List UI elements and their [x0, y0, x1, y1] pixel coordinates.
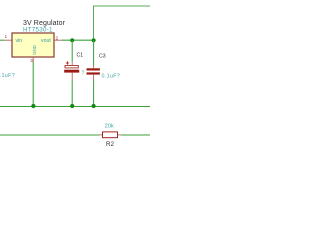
R2 pin right: [118, 134, 122, 136]
wire C3 top: [93, 40, 95, 65]
wire R2 rail left: [0, 134, 99, 136]
svg-text:C3: C3: [99, 53, 106, 59]
wire R2 rail right: [121, 134, 150, 136]
C1 plus mark: [66, 61, 69, 64]
C1 top plate (hollow): [65, 65, 78, 68]
svg-text:0.1uF?: 0.1uF?: [102, 73, 121, 79]
svg-text:20k: 20k: [105, 124, 114, 130]
junction C3 / rail: [92, 104, 96, 108]
wire C1 bottom: [71, 81, 73, 107]
C1 bottom plate (filled): [64, 70, 79, 73]
R2 pin left: [99, 134, 103, 136]
wire C3 bottom: [93, 81, 95, 107]
svg-text:vout: vout: [41, 38, 51, 44]
svg-text:0.1uF?: 0.1uF?: [0, 73, 15, 79]
C3 pin top: [93, 65, 95, 68]
C1 pin top: [71, 62, 73, 66]
svg-text:vin: vin: [16, 38, 23, 44]
C3 top plate: [87, 68, 100, 70]
svg-text:1: 1: [5, 34, 8, 39]
regulator IC body (HT7530-1): [12, 33, 54, 57]
C1 pin bottom: [71, 73, 73, 81]
resistor R2 body: [103, 132, 118, 138]
wire vin from left edge: [0, 39, 5, 41]
pin 3 stub: [32, 57, 34, 62]
junction at C3 tap: [92, 38, 96, 42]
C3 pin bottom: [93, 75, 95, 81]
wire top-right corner: [94, 6, 151, 40]
wire C1 top: [71, 40, 73, 61]
svg-text:GND: GND: [32, 45, 37, 55]
junction at vout/C1: [70, 38, 74, 42]
svg-text:R2: R2: [106, 141, 114, 148]
C3 bottom plate: [87, 72, 100, 74]
wire gnd pin down: [32, 62, 34, 106]
wire bottom gnd rail: [0, 105, 150, 107]
pin 1 stub: [5, 39, 13, 41]
junction gnd pin / rail: [31, 104, 35, 108]
svg-text:?: ?: [82, 70, 85, 76]
svg-text:2: 2: [56, 35, 59, 40]
svg-text:C1: C1: [77, 53, 84, 59]
wire vout rail: [62, 39, 94, 41]
junction C1 / rail: [70, 104, 74, 108]
pin 2 stub: [54, 39, 62, 41]
